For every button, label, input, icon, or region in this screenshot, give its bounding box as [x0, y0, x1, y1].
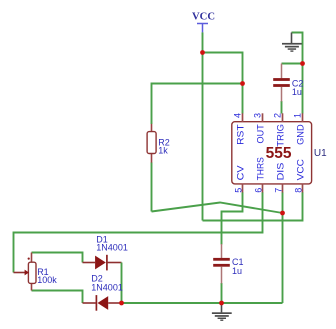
potentiometer R1 — [14, 253, 37, 291]
junction node VCC tap — [200, 50, 205, 55]
svg-text:VCC: VCC — [295, 159, 306, 181]
junction node D1 D2 rail — [119, 301, 124, 306]
svg-text:TRIG: TRIG — [275, 124, 286, 147]
svg-text:CV: CV — [235, 165, 246, 181]
svg-text:1N4001: 1N4001 — [96, 243, 128, 253]
svg-text:DIS: DIS — [275, 163, 286, 181]
svg-text:555: 555 — [266, 145, 292, 162]
wire ground rail bottom — [122, 302, 283, 304]
svg-text:1k: 1k — [158, 145, 168, 155]
resistor R2 — [147, 124, 156, 163]
pin 6 stub — [262, 184, 264, 193]
svg-text:6: 6 — [253, 188, 263, 193]
svg-text:OUT: OUT — [255, 124, 266, 143]
svg-text:1u: 1u — [232, 266, 242, 276]
svg-text:1N4001: 1N4001 — [91, 283, 123, 293]
wire C2 bottom to pin 2 — [281, 101, 283, 114]
svg-text:GND: GND — [295, 124, 306, 145]
capacitor C1 — [213, 244, 230, 283]
junction node DIS diagonal — [280, 211, 285, 216]
op-amp U1 555 timer body — [232, 122, 312, 184]
svg-text:4: 4 — [233, 113, 243, 118]
wire R1 top to D1 anode — [32, 253, 83, 263]
wire node to C2 top — [282, 63, 303, 65]
svg-text:1: 1 — [293, 113, 303, 118]
wire pin 6 to R1 wiper — [14, 192, 263, 272]
pin 2 stub — [282, 113, 284, 122]
wire VCC to RST column — [203, 53, 243, 114]
svg-text:3: 3 — [253, 113, 263, 118]
wire diagonal R2 to DIS column — [152, 203, 283, 214]
svg-text:8: 8 — [293, 188, 303, 193]
diode D1 — [83, 255, 122, 271]
pin 5 stub — [242, 184, 244, 193]
wire R1 bottom to D2 cathode — [32, 291, 83, 304]
svg-text:100k: 100k — [37, 275, 57, 285]
svg-text:U1: U1 — [314, 148, 327, 159]
diode D2 — [83, 295, 120, 311]
pin 1 stub — [302, 113, 304, 122]
wire ground top to pin 1 — [292, 33, 303, 114]
wire C1 bottom to rail — [221, 283, 223, 303]
wire RST row to R2 top — [152, 84, 243, 125]
wire VCC vertical main — [202, 32, 204, 220]
ground top right — [282, 33, 302, 52]
wire VCC bottom horizontal to pin 8 — [203, 192, 303, 220]
svg-text:VCC: VCC — [192, 12, 215, 23]
ground bottom — [212, 303, 232, 321]
pin 8 stub — [302, 184, 304, 193]
svg-text:RST: RST — [235, 124, 246, 145]
pin 4 stub — [242, 113, 244, 122]
junction node C1 ground — [219, 301, 224, 306]
svg-text:5: 5 — [233, 188, 243, 193]
svg-text:1u: 1u — [292, 87, 302, 97]
svg-text:THRS: THRS — [255, 157, 266, 180]
pin 3 stub — [262, 113, 264, 122]
capacitor C2 — [273, 64, 290, 102]
svg-text:2: 2 — [273, 113, 283, 118]
wire R2 bottom vertical — [151, 162, 153, 211]
wire pin 5 to C1 top — [222, 192, 243, 244]
wire D1 cathode down to rail — [121, 263, 123, 304]
wire pin 7 vertical to ground rail — [282, 192, 284, 303]
power symbol VCC — [192, 12, 215, 33]
pin 7 stub — [282, 184, 284, 193]
junction node RST row — [240, 81, 245, 86]
junction node C2 top — [300, 61, 305, 66]
svg-text:7: 7 — [273, 188, 283, 193]
